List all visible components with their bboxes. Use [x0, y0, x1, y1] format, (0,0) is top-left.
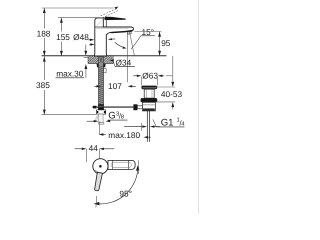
body + spout outline — [94, 18, 133, 56]
svg-text:Ø34: Ø34 — [116, 57, 132, 67]
svg-text:107: 107 — [108, 81, 122, 91]
95 degree swing arc — [96, 168, 138, 204]
extension line top (raised lever tip level) — [42, 7, 114, 9]
max.180 — [99, 122, 101, 135]
shank (threaded) — [99, 56, 104, 109]
svg-text:188: 188 — [37, 28, 51, 38]
seal ring — [141, 98, 158, 102]
svg-text:max.30: max.30 — [56, 69, 84, 79]
ball rod knob — [133, 104, 137, 110]
flow arrows under spout — [111, 38, 116, 40]
95 dim — [135, 31, 162, 33]
nut under deck — [97, 64, 106, 67]
svg-text:95: 95 — [161, 38, 171, 48]
top view: lever bar right — [108, 160, 135, 169]
dark bands bottom of shank — [98, 104, 104, 106]
40-53 dim — [155, 86, 175, 88]
connector block under shank — [97, 110, 106, 114]
arc arrow at raised tip — [114, 7, 118, 10]
side tab on shank — [104, 69, 107, 73]
dashed raised lever — [101, 8, 119, 18]
svg-text:Ø48: Ø48 — [73, 32, 89, 42]
spout dark underside — [111, 30, 133, 33]
cap detail — [97, 19, 103, 25]
Ø48 arrow — [89, 39, 95, 46]
top view: pivot circle — [93, 159, 108, 174]
arrow row y=126.6 with tick — [124, 126, 144, 128]
arrowheads for vertical dims — [43, 8, 63, 115]
svg-text:40-53: 40-53 — [161, 89, 183, 99]
flange — [141, 86, 157, 90]
small arrows at hose end — [87, 120, 95, 122]
svg-text:385: 385 — [36, 80, 50, 90]
svg-text:Ø63: Ø63 — [142, 70, 158, 80]
svg-text:95°: 95° — [119, 189, 132, 199]
neck — [144, 89, 154, 98]
deck hatch — [88, 56, 113, 63]
tailpipe — [146, 111, 148, 142]
deck line — [42, 55, 167, 57]
top view: lever pointing down — [95, 172, 103, 190]
divider line right — [198, 0, 200, 214]
spout top inner line — [96, 28, 129, 30]
aerator — [127, 32, 131, 35]
svg-text:44: 44 — [89, 143, 99, 153]
extension line 385 bottom — [42, 114, 97, 116]
lever (closed) — [104, 17, 126, 20]
dim line 155 — [60, 18, 62, 32]
svg-text:max.180: max.180 — [108, 130, 140, 140]
extension line 155 top (lever top level) — [58, 17, 100, 19]
lower cup — [142, 102, 155, 111]
pop-up rod — [92, 106, 133, 108]
svg-text:G3/8: G3/8 — [108, 110, 124, 121]
15 deg angle geometry — [126, 33, 128, 83]
dim line 188/385 — [43, 8, 45, 29]
svg-text:155: 155 — [56, 32, 70, 42]
hoses — [95, 114, 98, 121]
